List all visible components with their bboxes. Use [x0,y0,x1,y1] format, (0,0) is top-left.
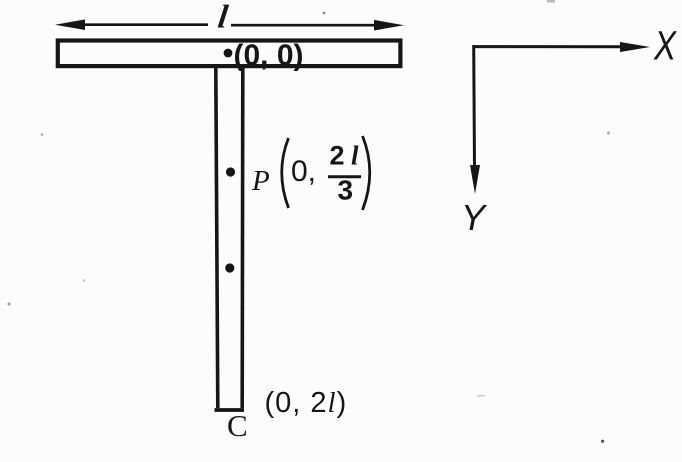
Y axis [470,45,480,194]
big right parenthesis [363,136,370,210]
svg-text:Y: Y [461,197,488,238]
svg-text:(0, 0): (0, 0) [234,39,304,72]
horizontal rod [58,41,401,67]
dimension arrow (double-headed, length l) [55,19,404,30]
origin dot [224,49,233,58]
X axis [474,42,650,52]
svg-text:2l: 2l [330,141,363,171]
big left parenthesis [282,138,289,208]
fraction bar [328,175,361,178]
vertical rod [215,68,245,410]
scan noise marks [8,303,11,306]
svg-text:P: P [251,165,270,197]
lower dot on rod [225,263,234,272]
dot P on rod [226,167,235,176]
svg-text:3: 3 [338,175,354,206]
svg-text:0,: 0, [291,155,316,188]
svg-text:(0, 2l): (0, 2l) [265,387,348,419]
svg-text:C: C [227,408,248,443]
svg-text:X: X [653,23,677,69]
